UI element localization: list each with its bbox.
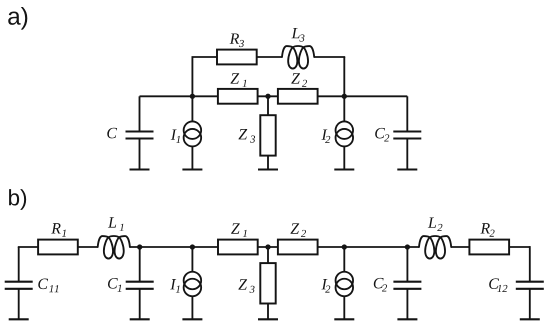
capacitor C12 bbox=[529, 246, 531, 282]
capacitor C2 bbox=[406, 247, 408, 282]
ground (I1) bbox=[182, 168, 202, 170]
wire: main line L1 to L2 bbox=[130, 246, 419, 248]
inductor L1 bbox=[98, 236, 130, 259]
label b) bbox=[9, 189, 19, 205]
impedance Z2 bbox=[278, 89, 318, 104]
capacitor C11 bbox=[18, 247, 20, 282]
wire: R1 to L1 bbox=[78, 246, 98, 248]
ground (I2) bbox=[334, 168, 354, 170]
wire: L2 to R2 bbox=[451, 246, 469, 248]
ground (C11) bbox=[9, 318, 29, 320]
wire: top branch left segment bbox=[192, 56, 283, 58]
ground (C12) bbox=[520, 318, 540, 320]
wire: right riser of top branch bbox=[343, 57, 345, 96]
current source I1 bbox=[191, 247, 193, 272]
node: I1 junction bbox=[190, 244, 195, 249]
impedance Z3 bbox=[267, 247, 269, 263]
current source I2 bbox=[343, 96, 345, 121]
wire: left riser of top branch bbox=[191, 57, 193, 96]
capacitor C1 bbox=[139, 247, 141, 282]
ground (C2) bbox=[397, 318, 417, 320]
impedance Z2 bbox=[278, 240, 318, 255]
wire: top branch right segment bbox=[314, 56, 345, 58]
node: C1 junction bbox=[137, 244, 142, 249]
impedance Z1 bbox=[218, 240, 258, 255]
inductor L3 bbox=[282, 46, 314, 69]
node: I1 junction bbox=[190, 94, 195, 99]
ground (I2) bbox=[334, 318, 354, 320]
wire: C11 to R1 bbox=[18, 246, 38, 248]
wire: main node line bbox=[140, 95, 408, 97]
resistor R1 bbox=[38, 240, 78, 255]
ground (I1) bbox=[182, 318, 202, 320]
impedance Z3 bbox=[267, 96, 269, 115]
node: Z3 junction bbox=[265, 94, 270, 99]
node: C2 junction bbox=[405, 244, 410, 249]
node: I2 junction bbox=[342, 244, 347, 249]
resistor R2 bbox=[469, 240, 509, 255]
current source I1 bbox=[191, 96, 193, 121]
inductor L2 bbox=[419, 236, 451, 259]
label a) bbox=[8, 12, 20, 25]
capacitor C2 bbox=[406, 96, 408, 131]
ground (Z3) bbox=[258, 168, 278, 170]
impedance Z1 bbox=[218, 89, 258, 104]
ground (Z3) bbox=[258, 318, 278, 320]
node: I2 junction bbox=[342, 94, 347, 99]
ground (C) bbox=[130, 168, 150, 170]
capacitor C bbox=[139, 96, 141, 131]
ground (C2) bbox=[397, 168, 417, 170]
ground (C1) bbox=[130, 318, 150, 320]
resistor R3 bbox=[217, 50, 257, 65]
node: Z3 junction bbox=[265, 244, 270, 249]
current source I2 bbox=[343, 247, 345, 272]
wire: R2 to C12 corner bbox=[509, 246, 530, 248]
